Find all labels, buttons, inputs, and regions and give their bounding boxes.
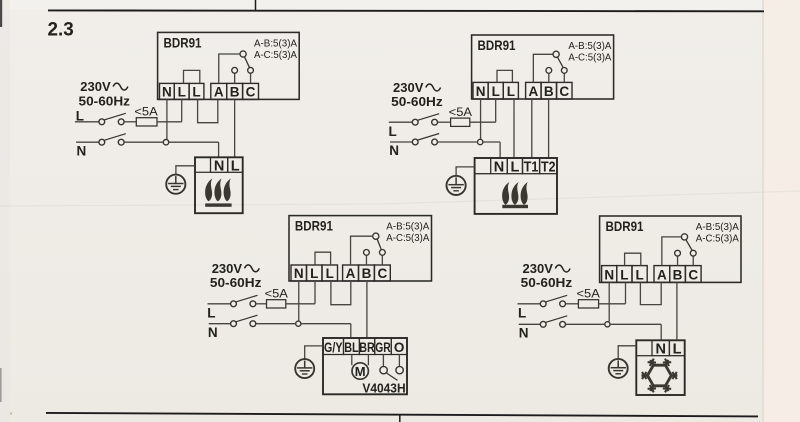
svg-text:T1: T1 <box>524 160 539 176</box>
valve box V4043H D3 <box>323 338 407 394</box>
svg-text:N: N <box>476 84 486 99</box>
boiler shelf line D2 <box>475 173 491 175</box>
boiler box D1 <box>195 157 243 213</box>
wire leg B to boiler T2 D2 <box>548 99 550 159</box>
top rule stub <box>255 0 257 11</box>
svg-text:L: L <box>178 84 186 99</box>
snowflake symbol D4 <box>648 365 672 386</box>
ground symbol D2 <box>447 176 466 195</box>
wire N lead D1 <box>76 141 99 143</box>
wire L to fuse D4 <box>566 303 579 305</box>
svg-text:N: N <box>162 84 172 99</box>
svg-text:2.3: 2.3 <box>48 19 74 41</box>
ground wire D4 <box>618 346 636 359</box>
terminal A cell U1 <box>211 83 227 99</box>
cooler terminal L cell D4 <box>669 340 684 355</box>
switch N pole D2 <box>412 139 418 145</box>
switch L pole D1 <box>99 119 105 125</box>
svg-text:T2: T2 <box>541 160 556 176</box>
wire leg A to boiler T1 D2 <box>531 99 533 159</box>
relay contact circle B U1 <box>232 67 238 73</box>
wire fuse to L1 leg D2 <box>470 121 496 123</box>
terminal L3 cell U2 <box>503 82 518 99</box>
fuse <5A D4 body <box>578 300 598 308</box>
svg-text:N: N <box>208 325 218 340</box>
svg-text:N: N <box>214 158 224 174</box>
relay contact common riser from A U3 <box>351 236 374 265</box>
svg-text:N: N <box>77 143 87 158</box>
terminal A cell U2 <box>526 82 541 99</box>
valve terminal BL cell D3 <box>344 338 360 355</box>
wire leg L1 down D3 <box>314 281 316 304</box>
wire leg L2 to boiler L D2 <box>513 99 515 159</box>
svg-text:<5A: <5A <box>577 287 600 301</box>
relay module BDR91 U3 box <box>289 216 432 281</box>
svg-text:L: L <box>518 305 526 320</box>
svg-text:L: L <box>207 305 215 320</box>
terminal C cell U3 <box>374 265 390 281</box>
terminal N cell U1 <box>160 83 175 99</box>
relay module BDR91 U1 box <box>158 32 300 99</box>
relay contact pivot U2 <box>553 51 559 57</box>
relay contact circle C U1 <box>248 67 254 73</box>
valve terminal O cell D3 <box>391 338 407 355</box>
junction node N rail D3 <box>296 321 301 326</box>
ground symbol D1 <box>166 175 185 194</box>
wire N switch to junction D2 <box>438 141 478 143</box>
svg-text:230V: 230V <box>523 261 554 276</box>
flame symbol D2 hearth bar <box>502 205 528 208</box>
svg-text:230V: 230V <box>80 79 111 94</box>
svg-text:C: C <box>246 84 256 99</box>
relay contact circle B U2 <box>546 68 552 74</box>
svg-text:N: N <box>604 267 614 282</box>
link L2 to A below terminals D3 <box>331 281 351 305</box>
svg-text:L: L <box>620 267 628 282</box>
svg-text:N: N <box>655 341 665 357</box>
wire leg L1 down D4 <box>625 282 627 303</box>
boiler terminal L cell D2 <box>507 158 522 174</box>
terminal L3 cell U1 <box>189 83 204 99</box>
boiler terminal L cell D1 <box>228 157 243 172</box>
relay contact riser B U3 <box>365 255 367 265</box>
svg-text:BDR91: BDR91 <box>478 37 516 53</box>
relay contact common riser from A U2 <box>533 54 553 82</box>
wire leg B to boiler L D1 <box>234 99 236 158</box>
page edge vertical right <box>762 0 764 422</box>
fuse <5A D3 body <box>267 300 286 308</box>
terminal B cell U2 <box>541 82 556 99</box>
wire L lead D4 <box>518 303 541 305</box>
boiler terminal N cell D2 <box>491 158 508 174</box>
svg-text:C: C <box>377 266 387 281</box>
wire fuse to L1 leg D4 <box>599 303 626 305</box>
wire N rail D3 <box>301 323 351 325</box>
ground wire D2 <box>456 167 475 176</box>
ground symbol D3 <box>295 359 314 378</box>
terminal A cell U3 <box>343 265 359 281</box>
terminal L2 cell U1 <box>174 83 189 99</box>
svg-text:50-60Hz: 50-60Hz <box>79 93 131 108</box>
svg-text:L: L <box>310 266 318 281</box>
relay contact riser B U2 <box>548 73 550 82</box>
relay contact circle C U4 <box>690 250 696 256</box>
flame symbol D2 flame 2 <box>511 182 518 205</box>
terminal N cell U4 <box>602 266 617 283</box>
aux switch contact O D3 <box>396 366 403 373</box>
wire N switch to junction D3 <box>256 323 296 325</box>
svg-text:<5A: <5A <box>134 105 157 119</box>
relay contact blade U2 <box>557 57 563 68</box>
wire leg N down D1 <box>166 99 168 139</box>
wire N rail D4 <box>610 323 661 325</box>
svg-text:BL: BL <box>344 340 359 355</box>
scan edge dark sliver top-left <box>0 0 2 27</box>
switch N pole D4 <box>540 321 546 327</box>
relay contact common riser from A U1 <box>219 54 241 83</box>
wire N rail drop to boiler N D1 <box>218 142 220 158</box>
svg-text:N: N <box>519 326 529 341</box>
junction node N rail D1 <box>163 140 168 145</box>
switch N pole D1 <box>99 139 105 145</box>
bottom rule stub <box>399 415 401 422</box>
wire L to fuse D3 <box>256 303 267 305</box>
svg-text:L: L <box>492 84 500 99</box>
svg-text:C: C <box>688 267 698 282</box>
relay contact circle B U4 <box>675 250 681 256</box>
flame symbol D2 flame 3 <box>521 182 528 205</box>
ground wire D3 <box>305 346 323 359</box>
terminal B cell U4 <box>670 266 686 283</box>
boiler terminal T2 cell D2 <box>540 158 557 174</box>
relay contact blade U4 <box>686 240 692 251</box>
relay contact pivot U4 <box>681 234 687 240</box>
svg-text:V4043H: V4043H <box>362 381 405 395</box>
link L2 to A below terminals D1 <box>198 99 218 122</box>
top rule <box>48 9 764 12</box>
terminal C cell U2 <box>557 82 572 99</box>
terminal A cell U4 <box>654 266 670 283</box>
AC sine symbol D3 <box>245 265 260 272</box>
link L2 to A below terminals D4 <box>640 282 661 304</box>
svg-text:L: L <box>192 84 200 99</box>
wire L lead D2 <box>389 121 412 123</box>
terminal L3 cell U4 <box>632 266 647 283</box>
ground wire D1 <box>176 166 195 176</box>
terminal L2 cell U2 <box>488 82 503 99</box>
relay contact riser C U1 <box>250 73 252 83</box>
svg-text:A: A <box>214 84 224 99</box>
wire N rail drop to valve BL D3 <box>350 324 352 338</box>
svg-text:G/Y: G/Y <box>324 340 343 355</box>
flame symbol D1 flame 3 <box>224 179 231 202</box>
svg-text:L: L <box>510 160 519 176</box>
relay contact pivot U3 <box>373 233 379 239</box>
motor leg from BR D3 <box>367 355 369 366</box>
motor leg from BL D3 <box>351 355 353 366</box>
svg-text:O: O <box>394 340 405 355</box>
svg-text:A-B:5(3)A: A-B:5(3)A <box>568 40 611 52</box>
wire L to fuse D1 <box>124 121 136 123</box>
svg-text:<5A: <5A <box>449 105 472 119</box>
svg-text:B: B <box>362 266 372 281</box>
relay contact riser C U2 <box>563 73 565 82</box>
wire fuse to L1 leg D3 <box>286 303 315 305</box>
terminal L3 cell U3 <box>322 265 338 281</box>
aux switch leg GR D3 <box>382 355 384 367</box>
relay contact blade U1 <box>244 57 249 68</box>
wire leg L1 down D2 <box>495 99 497 122</box>
terminal B cell U1 <box>227 83 243 99</box>
svg-text:L: L <box>673 341 682 357</box>
relay contact circle B U3 <box>364 250 370 256</box>
fold crease horizontal <box>0 191 800 206</box>
terminal C cell U1 <box>243 83 259 99</box>
svg-text:A-C:5(3)A: A-C:5(3)A <box>568 52 611 64</box>
svg-text:N: N <box>294 266 304 281</box>
AC sine symbol D4 <box>555 265 570 272</box>
wire L lead D1 <box>75 121 99 123</box>
valve terminal GR cell D3 <box>375 338 392 355</box>
relay module BDR91 U2 box <box>472 35 614 99</box>
svg-text:B: B <box>544 84 554 99</box>
svg-text:50-60Hz: 50-60Hz <box>521 275 573 290</box>
ground symbol D4 <box>609 359 628 378</box>
wire N switch to junction D1 <box>124 141 163 143</box>
svg-text:230V: 230V <box>393 80 424 95</box>
motor M symbol D3 <box>352 363 368 379</box>
junction node N rail D4 <box>605 322 610 327</box>
wire L to fuse D2 <box>438 121 451 123</box>
wire leg N down D2 <box>480 99 482 139</box>
svg-text:L: L <box>326 266 334 281</box>
wire leg N down D3 <box>298 281 300 321</box>
boiler box D2 <box>475 158 557 214</box>
svg-text:A-C:5(3)A: A-C:5(3)A <box>696 233 739 245</box>
svg-text:B: B <box>673 267 683 282</box>
cooler terminal N cell D4 <box>652 340 669 355</box>
wire leg B to cooler L D4 <box>676 282 678 339</box>
internal link L-L U2 <box>497 70 512 82</box>
internal link L-L U3 <box>315 252 331 265</box>
svg-text:BDR91: BDR91 <box>606 218 644 234</box>
svg-text:L: L <box>507 84 515 99</box>
wire leg B to valve BR D3 <box>366 281 368 338</box>
cooling unit box D4 <box>636 340 684 395</box>
scan edge sliver bottom-left <box>0 368 2 402</box>
boiler terminal N cell D1 <box>211 157 228 172</box>
junction node N rail D2 <box>478 139 483 144</box>
svg-text:A-C:5(3)A: A-C:5(3)A <box>386 232 429 244</box>
wire N lead D2 <box>390 141 412 143</box>
wire leg N down D4 <box>608 282 610 321</box>
bottom rule <box>46 413 758 417</box>
wire N rail D2 <box>483 141 500 143</box>
svg-text:BDR91: BDR91 <box>164 34 202 50</box>
switch L pole D2 <box>412 119 418 125</box>
aux switch contact GR D3 <box>380 366 387 373</box>
relay contact riser C U3 <box>381 255 383 265</box>
wire leg L1 down D1 <box>181 99 183 121</box>
svg-text:A-C:5(3)A: A-C:5(3)A <box>254 49 297 61</box>
relay contact circle C U3 <box>379 250 385 256</box>
paper speck <box>10 412 12 414</box>
flame symbol D1 flame 1 <box>205 179 212 202</box>
relay contact riser B U1 <box>234 73 236 83</box>
flame symbol D1 flame 2 <box>214 179 221 202</box>
wire N rail drop to cooler N D4 <box>660 324 662 339</box>
terminal N cell U2 <box>473 82 488 99</box>
relay contact common riser from A U4 <box>662 237 682 266</box>
wire N rail D1 <box>169 141 219 143</box>
relay contact riser B U4 <box>677 256 679 266</box>
relay contact riser C U4 <box>692 256 694 266</box>
switch N pole D3 <box>231 321 237 327</box>
internal link L-L U1 <box>184 70 200 83</box>
wire L lead D3 <box>208 303 231 305</box>
flame symbol D2 flame 1 <box>502 182 509 205</box>
svg-text:BR: BR <box>359 340 375 355</box>
svg-text:L: L <box>635 267 643 282</box>
wire fuse to L1 leg D1 <box>157 121 182 123</box>
svg-text:A-B:5(3)A: A-B:5(3)A <box>386 221 429 233</box>
boiler shelf line D1 <box>195 171 211 173</box>
svg-text:C: C <box>559 84 569 99</box>
svg-text:GR: GR <box>375 340 391 355</box>
svg-text:M: M <box>355 364 366 379</box>
paper top band <box>0 0 800 10</box>
AC sine symbol D2 <box>426 84 441 91</box>
svg-text:L: L <box>389 124 397 139</box>
boiler terminal T1 cell D2 <box>523 158 540 174</box>
svg-text:230V: 230V <box>212 261 243 276</box>
svg-text:A: A <box>528 84 538 99</box>
wire N lead D4 <box>519 323 541 325</box>
relay module BDR91 U4 box <box>600 216 741 282</box>
svg-text:<5A: <5A <box>265 287 288 301</box>
svg-text:N: N <box>389 143 399 158</box>
switch L pole D4 <box>540 301 546 307</box>
cooling unit shelf line D4 <box>636 355 652 357</box>
terminal N cell U3 <box>291 265 307 281</box>
flame symbol D1 hearth bar <box>205 203 231 206</box>
terminal B cell U3 <box>359 265 375 281</box>
svg-text:A: A <box>346 266 356 281</box>
valve terminal BR cell D3 <box>359 338 374 355</box>
AC sine symbol D1 <box>113 83 128 90</box>
relay contact blade U3 <box>377 239 381 250</box>
svg-text:L: L <box>231 158 240 174</box>
relay contact circle C U2 <box>561 68 567 74</box>
switch L pole D3 <box>231 301 237 307</box>
svg-text:B: B <box>230 84 240 99</box>
wire N rail drop to boiler N D2 <box>499 142 501 159</box>
fuse <5A D1 body <box>136 118 157 126</box>
terminal C cell U4 <box>685 266 701 283</box>
valve terminal G/Y cell D3 <box>323 338 344 355</box>
svg-text:A-B:5(3)A: A-B:5(3)A <box>254 37 297 49</box>
wire N lead D3 <box>209 323 231 325</box>
aux switch leg O D3 <box>398 355 400 367</box>
paper shading right band <box>762 0 800 422</box>
paper shading left band <box>0 0 10 422</box>
fuse <5A D2 body <box>451 118 470 126</box>
terminal L2 cell U3 <box>307 265 323 281</box>
svg-text:A-B:5(3)A: A-B:5(3)A <box>696 221 739 233</box>
svg-text:BDR91: BDR91 <box>295 218 333 234</box>
svg-text:N: N <box>494 160 504 176</box>
svg-text:50-60Hz: 50-60Hz <box>391 94 443 109</box>
svg-text:A: A <box>657 267 667 282</box>
internal link L-L U4 <box>625 253 641 265</box>
terminal L2 cell U4 <box>617 266 632 283</box>
svg-text:50-60Hz: 50-60Hz <box>210 275 262 290</box>
aux switch blade D3 <box>386 373 397 381</box>
wire N switch to junction D4 <box>566 323 605 325</box>
relay contact pivot U1 <box>240 51 246 57</box>
